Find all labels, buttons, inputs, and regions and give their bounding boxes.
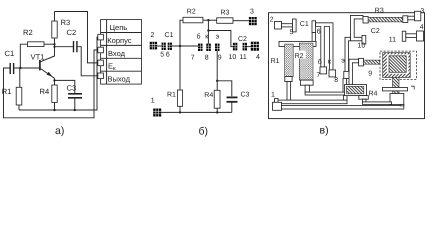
svg-text:R3: R3 bbox=[61, 18, 71, 27]
svg-text:7: 7 bbox=[191, 55, 195, 62]
capacitor C2 bbox=[74, 41, 77, 52]
pad 3 bbox=[249, 17, 257, 25]
pad 7 base bbox=[198, 44, 203, 51]
wire R1 bottom bbox=[179, 106, 181, 112]
resistor R1 bbox=[177, 90, 182, 106]
wire R1 bottom lead bbox=[18, 105, 20, 110]
resistor R3 bbox=[52, 21, 57, 38]
svg-text:2: 2 bbox=[151, 32, 155, 39]
svg-text:VT1: VT1 bbox=[31, 53, 45, 62]
svg-text:в): в) bbox=[320, 125, 329, 137]
wire emitter bbox=[54, 78, 56, 85]
pad 4 bbox=[251, 42, 259, 51]
resistor R3 film bbox=[368, 17, 403, 22]
resistor R2 bbox=[183, 17, 203, 23]
wire input: C1 left to bottom line to connector Vhod pin bbox=[4, 50, 98, 118]
pin Vyhod bbox=[98, 73, 104, 79]
wire emitter down bbox=[216, 51, 218, 90]
emitter pad jog bbox=[359, 58, 364, 66]
svg-text:б: б bbox=[318, 58, 322, 66]
node base bbox=[179, 45, 181, 47]
wire to pad10 bbox=[208, 31, 233, 47]
resistor R4 bbox=[214, 90, 220, 108]
svg-text:C1: C1 bbox=[300, 21, 309, 28]
wire collector down to pad8 bbox=[207, 20, 209, 44]
trace contact2 to pad5 bbox=[282, 24, 293, 27]
svg-text:R2: R2 bbox=[23, 28, 33, 37]
svg-text:6: 6 bbox=[317, 28, 321, 35]
transistor lead bar down bbox=[393, 77, 400, 97]
contact 4 pad bbox=[417, 31, 424, 41]
node rail C3 bbox=[74, 109, 76, 111]
pad 1 bbox=[153, 109, 161, 117]
node R2-collector bbox=[53, 43, 55, 45]
contact1 riser bbox=[275, 99, 279, 103]
svg-text:Выход: Выход bbox=[108, 75, 131, 84]
node C2 tap bbox=[53, 46, 55, 48]
pad 5 bbox=[293, 19, 297, 32]
pad 10 bbox=[233, 43, 237, 51]
emitter trace bbox=[349, 59, 359, 85]
svg-text:R1: R1 bbox=[167, 92, 176, 99]
svg-text:C2: C2 bbox=[238, 36, 247, 43]
node emitter bbox=[53, 79, 55, 81]
lead bottom pad bbox=[390, 94, 404, 105]
ground trace end riser bbox=[400, 104, 404, 105]
svg-text:2: 2 bbox=[270, 16, 274, 23]
riser collector to pad9 bbox=[343, 78, 347, 92]
node C2 branch bbox=[207, 29, 209, 31]
svg-text:4: 4 bbox=[420, 24, 424, 31]
svg-text:Цепь: Цепь bbox=[110, 23, 128, 32]
wire collector bbox=[54, 38, 56, 57]
wire ground rail to Korpus pin bbox=[19, 37, 98, 110]
resistor R4 film bbox=[347, 86, 364, 94]
svg-text:8: 8 bbox=[205, 55, 209, 62]
wire R4 bottom bbox=[54, 102, 56, 110]
trace pad6 riser to base bus bbox=[312, 33, 316, 42]
wire ground rail b bbox=[161, 111, 232, 113]
trace collector to pad9 bbox=[345, 37, 351, 71]
capacitor C3 bbox=[227, 97, 238, 101]
svg-text:9: 9 bbox=[368, 71, 372, 78]
node rail R4 bbox=[216, 111, 218, 113]
svg-text:8: 8 bbox=[334, 77, 338, 84]
pad 8 bbox=[329, 70, 336, 77]
wire R3 to pad3 bbox=[233, 20, 249, 22]
svg-text:5: 5 bbox=[160, 52, 164, 59]
transistor crystal margin bbox=[387, 54, 409, 74]
svg-text:6: 6 bbox=[166, 52, 170, 59]
wire base bbox=[14, 67, 40, 69]
svg-text:3: 3 bbox=[250, 9, 254, 16]
contact 2 pad bbox=[275, 22, 282, 30]
resistor R1 bbox=[16, 87, 22, 105]
svg-text:9: 9 bbox=[218, 55, 222, 62]
contact 3 pad bbox=[415, 11, 421, 20]
pad 11 bar bbox=[402, 31, 406, 41]
R3 left pad bbox=[363, 17, 368, 24]
trace crossing behind lead bbox=[383, 88, 408, 91]
pad 11 bbox=[243, 43, 247, 51]
svg-text:4: 4 bbox=[256, 54, 260, 61]
collector bottom trace bbox=[305, 92, 346, 95]
pad 8 collector bbox=[206, 44, 211, 51]
capacitor C1 bbox=[10, 63, 13, 74]
pad 6 bbox=[312, 21, 316, 33]
svg-text:5: 5 bbox=[290, 29, 294, 36]
base bus bar bbox=[279, 41, 316, 46]
wire emitter to C3 bbox=[217, 81, 232, 97]
R4 under pad stub bbox=[363, 99, 367, 102]
wire R1 riser bbox=[179, 46, 181, 90]
svg-text:C2: C2 bbox=[67, 28, 77, 37]
wire R3 top to rail bbox=[54, 12, 56, 22]
riser to R4 left bbox=[343, 93, 347, 101]
node rail R4 bbox=[53, 109, 55, 111]
svg-text:э: э bbox=[341, 57, 345, 64]
trace pad6 two fingers down bbox=[316, 23, 333, 70]
emitter lead bar hatched bbox=[364, 60, 380, 64]
R2 bottom pad bbox=[300, 80, 313, 85]
resistor R3 bbox=[217, 18, 233, 24]
svg-text:R4: R4 bbox=[40, 87, 50, 96]
R4 under pad bbox=[359, 96, 369, 100]
pad 10 bar bbox=[362, 36, 366, 45]
transistor mount square bbox=[383, 53, 411, 78]
svg-text:R4: R4 bbox=[369, 91, 378, 98]
R1 bottom descend trace bbox=[287, 82, 291, 101]
svg-text:Корпус: Корпус bbox=[107, 36, 131, 45]
resistor R1 film bbox=[285, 44, 294, 76]
svg-text:б): б) bbox=[199, 126, 209, 138]
trace R3 to contact3 bbox=[408, 16, 415, 20]
connector X1 table bbox=[101, 20, 142, 85]
svg-text:11: 11 bbox=[240, 54, 247, 61]
svg-text:11: 11 bbox=[389, 37, 396, 44]
wire R4 bottom bbox=[216, 108, 218, 112]
ground trace bbox=[282, 106, 404, 109]
contact 1 pad bbox=[273, 102, 282, 110]
svg-text:R2: R2 bbox=[295, 53, 304, 60]
wire pad11 to pad4 bbox=[247, 46, 251, 48]
svg-text:а): а) bbox=[55, 125, 64, 137]
pad 7 bbox=[320, 67, 327, 74]
wire output path bbox=[78, 47, 98, 76]
svg-text:10: 10 bbox=[229, 54, 237, 61]
svg-text:R3: R3 bbox=[375, 8, 384, 15]
svg-text:7: 7 bbox=[316, 72, 320, 79]
svg-text:3: 3 bbox=[420, 8, 424, 15]
svg-text:R1: R1 bbox=[2, 87, 12, 96]
node rail R1 bbox=[179, 111, 181, 113]
wire emitter to C3 bbox=[55, 80, 75, 93]
board border bbox=[269, 13, 425, 119]
svg-text:1: 1 bbox=[271, 92, 275, 99]
node emitter b bbox=[216, 80, 218, 82]
svg-text:C2: C2 bbox=[371, 28, 380, 35]
pad 9 bbox=[344, 71, 350, 78]
wire C2 left lead bbox=[55, 46, 74, 48]
node collector top bbox=[207, 19, 209, 21]
pad 2 bbox=[150, 42, 157, 50]
node base junction bbox=[19, 67, 21, 69]
pad 6 bbox=[168, 43, 172, 50]
R4 block outline bbox=[345, 85, 367, 96]
trace pad11 to contact4 bbox=[406, 34, 417, 38]
wire R2 left riser bbox=[180, 20, 183, 46]
dash corner mark bbox=[411, 86, 414, 89]
trace R4 to lead pad bbox=[363, 102, 392, 105]
pin Vhod bbox=[98, 47, 104, 53]
R1 bottom pad bbox=[285, 77, 292, 82]
pad 5 bbox=[162, 43, 166, 50]
R2 bottom descend bbox=[305, 85, 309, 92]
svg-text:R4: R4 bbox=[204, 92, 213, 99]
wire C1 to base pad bbox=[172, 45, 198, 47]
pad 9 emitter bbox=[215, 44, 220, 51]
svg-text:10: 10 bbox=[358, 42, 366, 49]
transistor VT dashed outline bbox=[380, 51, 416, 79]
svg-text:C3: C3 bbox=[67, 84, 77, 93]
resistor R2 bbox=[28, 42, 45, 47]
resistor R2 film bbox=[299, 43, 313, 80]
svg-text:э: э bbox=[216, 34, 220, 41]
svg-text:R3: R3 bbox=[221, 10, 230, 17]
wire R2 to junction bbox=[203, 19, 217, 21]
label R2 bbox=[294, 51, 306, 60]
wire C3 bottom bbox=[231, 102, 233, 113]
capacitor C3 bbox=[68, 94, 82, 98]
wire pad2 to C1 bbox=[157, 45, 162, 47]
svg-text:Вход: Вход bbox=[108, 49, 126, 58]
wire R2 left lead bbox=[20, 44, 27, 68]
svg-text:C1: C1 bbox=[5, 49, 15, 58]
wire R1 top lead bbox=[19, 68, 21, 87]
pin Ek bbox=[98, 60, 104, 66]
transistor VT1 bbox=[40, 56, 55, 78]
svg-text:б: б bbox=[197, 33, 201, 41]
R3 right pad bbox=[403, 16, 408, 23]
svg-text:C3: C3 bbox=[241, 92, 250, 99]
svg-text:1: 1 bbox=[151, 98, 155, 105]
wire top rail / Ek bbox=[55, 12, 98, 63]
resistor R4 bbox=[52, 85, 57, 102]
wire R2 right lead bbox=[44, 43, 55, 45]
svg-text:R1: R1 bbox=[271, 58, 280, 65]
svg-text:R2: R2 bbox=[187, 9, 196, 16]
transistor crystal bbox=[389, 56, 406, 73]
svg-text:C1: C1 bbox=[165, 32, 174, 39]
wire C3 bottom bbox=[74, 98, 76, 110]
ground mid trace bbox=[275, 100, 348, 104]
pin Korpus bbox=[98, 34, 104, 40]
collector trace top bbox=[351, 15, 364, 40]
